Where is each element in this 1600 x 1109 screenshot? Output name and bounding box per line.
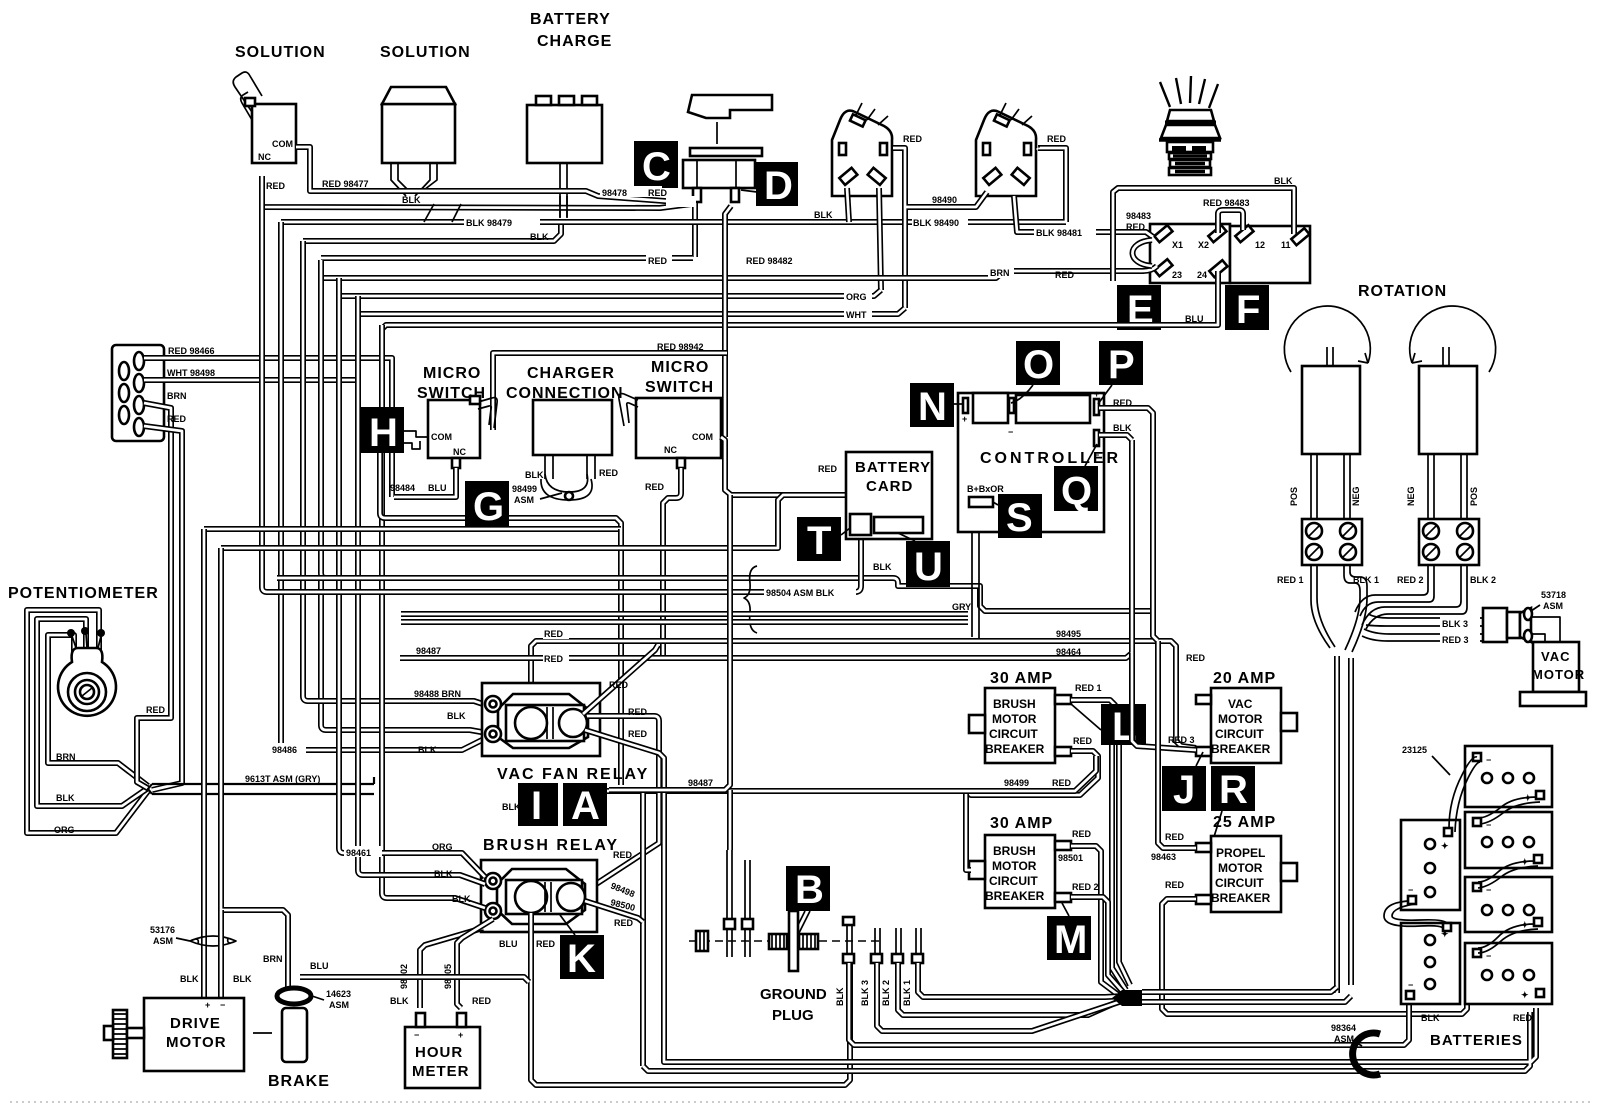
fan junction	[1112, 990, 1142, 1006]
svg-text:RED: RED	[903, 134, 923, 144]
wire 98478 bus S1 NC to key	[262, 176, 691, 208]
wire relay right red	[587, 716, 659, 888]
svg-text:H: H	[369, 411, 398, 455]
wire brush relay to hour meter right	[457, 919, 493, 1008]
svg-text:BLK 2: BLK 2	[881, 980, 891, 1006]
wire D pointer	[741, 190, 757, 192]
svg-text:BLK 3: BLK 3	[860, 980, 870, 1006]
wire micro1 H drop	[380, 453, 621, 529]
label BLK 98490	[912, 215, 968, 228]
svg-text:COM: COM	[692, 432, 713, 442]
svg-text:98464: 98464	[1056, 647, 1081, 657]
wire motor2 leads	[1428, 454, 1467, 519]
svg-text:BLK: BLK	[180, 974, 199, 984]
svg-text:RED: RED	[645, 482, 665, 492]
svg-text:+: +	[205, 1000, 210, 1010]
wire 23125 pointer	[1432, 756, 1450, 775]
label O	[1016, 341, 1060, 387]
svg-text:SOLUTION: SOLUTION	[380, 44, 471, 61]
terminal block EF	[1150, 224, 1310, 283]
svg-text:ROTATION: ROTATION	[1358, 283, 1447, 300]
svg-text:98495: 98495	[1056, 629, 1081, 639]
svg-text:BRN: BRN	[990, 268, 1010, 278]
label BATTERY CARD	[846, 452, 932, 539]
label BLK 98481	[1034, 226, 1096, 238]
svg-text:RED: RED	[544, 654, 564, 664]
wire micro2 NC drop	[663, 468, 681, 659]
svg-text:−: −	[1408, 885, 1413, 895]
svg-text:METER: METER	[412, 1063, 470, 1080]
terminal block 1	[1302, 519, 1362, 565]
svg-text:RED: RED	[613, 850, 633, 860]
wire U pointer	[898, 533, 915, 541]
svg-text:RED: RED	[1513, 1013, 1533, 1023]
svg-text:−: −	[1408, 980, 1413, 990]
svg-text:98487: 98487	[416, 646, 441, 656]
svg-text:+: +	[458, 1030, 463, 1040]
wire micro2 COM elbow	[721, 437, 855, 514]
svg-text:23: 23	[1172, 270, 1182, 280]
wire fan to motor cable	[1142, 987, 1351, 1002]
wire BLK2 drop to bundle	[1362, 565, 1467, 629]
label H	[360, 407, 404, 455]
label ORG	[844, 290, 872, 302]
wire X1 to 23 loop	[1133, 240, 1153, 266]
batteries right column	[1465, 746, 1552, 807]
wire bus 98504 y592	[267, 533, 861, 592]
wire key right to micro2 COM	[725, 206, 731, 437]
svg-text:BLK: BLK	[402, 195, 421, 205]
wire WHT 98498	[144, 377, 356, 383]
wire GRY bus double	[401, 614, 968, 622]
svg-text:RED: RED	[1047, 134, 1067, 144]
svg-text:CHARGE: CHARGE	[537, 33, 612, 50]
wire BLK1 to fan	[918, 963, 1125, 997]
svg-text:T: T	[807, 519, 831, 563]
wire H to micro1	[404, 431, 428, 449]
svg-text:BLK: BLK	[1274, 176, 1293, 186]
label B	[786, 866, 830, 912]
wire RED 98482 key to bus	[321, 255, 693, 261]
wire column x382	[382, 325, 387, 898]
svg-text:O: O	[1023, 343, 1054, 387]
wire pot drop2	[152, 660, 182, 790]
dotted bottom border	[10, 1101, 1590, 1103]
wire GRY 9613T cable	[148, 777, 374, 794]
label F	[1225, 285, 1269, 332]
svg-text:PROPEL: PROPEL	[1216, 846, 1265, 860]
ground pin right1	[843, 917, 854, 963]
svg-text:RED: RED	[628, 729, 648, 739]
wire column x303	[303, 241, 308, 701]
svg-text:98488 BRN: 98488 BRN	[414, 689, 461, 699]
svg-text:✦: ✦	[1521, 990, 1529, 1000]
svg-text:ORG: ORG	[846, 292, 867, 302]
svg-text:30 AMP: 30 AMP	[990, 815, 1053, 832]
wire BLK2 to fan	[898, 963, 1124, 1015]
wire relay diag up	[583, 645, 658, 714]
label RED 98464	[543, 653, 569, 664]
wire 53718 pointer	[1531, 605, 1540, 611]
svg-text:BATTERY: BATTERY	[530, 11, 611, 28]
wire BRN strip to pot	[144, 403, 171, 660]
wire BLK 98486 to vac relay	[286, 738, 486, 750]
svg-text:98484: 98484	[390, 483, 415, 493]
svg-text:ASM: ASM	[1334, 1034, 1354, 1044]
svg-text:98499: 98499	[512, 484, 537, 494]
svg-text:ORG: ORG	[54, 825, 75, 835]
svg-text:RED 1: RED 1	[1277, 575, 1304, 585]
svg-text:BLU: BLU	[310, 961, 329, 971]
svg-text:BLK 3: BLK 3	[1442, 619, 1468, 629]
label 98461	[344, 846, 382, 858]
wire BLU brake bus	[300, 977, 529, 982]
svg-text:HOUR: HOUR	[415, 1044, 463, 1061]
svg-text:CIRCUIT: CIRCUIT	[989, 727, 1038, 741]
svg-text:RED 3: RED 3	[1442, 635, 1469, 645]
battery B4	[1465, 943, 1552, 1004]
brake	[277, 988, 311, 1062]
svg-text:BRN: BRN	[263, 954, 283, 964]
svg-text:RED 2: RED 2	[1072, 882, 1099, 892]
wire brush relay to hour meter left	[420, 928, 483, 1008]
svg-text:98487: 98487	[688, 778, 713, 788]
svg-text:COM: COM	[431, 432, 452, 442]
svg-text:COM: COM	[272, 139, 293, 149]
svg-text:ASM: ASM	[329, 1000, 349, 1010]
charger connection	[533, 400, 612, 500]
svg-text:RED: RED	[614, 918, 634, 928]
label J	[1162, 766, 1206, 812]
svg-text:MOTOR: MOTOR	[992, 859, 1037, 873]
wire K BLU drop	[531, 913, 850, 1085]
wire BLK3 to fan	[877, 963, 1122, 1031]
svg-text:BLK: BLK	[233, 974, 252, 984]
svg-text:RED: RED	[1052, 778, 1072, 788]
svg-text:NC: NC	[453, 447, 466, 457]
svg-text:BLK 98479: BLK 98479	[466, 218, 512, 228]
svg-text:BLK 98490: BLK 98490	[913, 218, 959, 228]
svg-text:BATTERY: BATTERY	[855, 459, 931, 476]
svg-text:BLK: BLK	[525, 470, 544, 480]
wire drive dash	[253, 1032, 272, 1034]
svg-text:53176: 53176	[150, 925, 175, 935]
svg-text:11: 11	[1281, 240, 1291, 250]
ground plug thread	[769, 934, 787, 949]
svg-text:24: 24	[1197, 270, 1207, 280]
svg-text:CIRCUIT: CIRCUIT	[1215, 727, 1264, 741]
wire bus y548 to battery card	[221, 495, 820, 548]
svg-text:RED: RED	[472, 996, 492, 1006]
svg-text:BLK: BLK	[502, 802, 521, 812]
wire motor1 leads	[1311, 454, 1350, 519]
svg-text:WHT: WHT	[846, 310, 867, 320]
label RED 98495 left	[543, 628, 569, 639]
battery B6	[1401, 923, 1460, 1004]
svg-text:RED: RED	[146, 705, 166, 715]
wire BLK 98479 bus	[281, 148, 1066, 222]
svg-text:BLU: BLU	[499, 939, 518, 949]
svg-text:Q: Q	[1061, 469, 1092, 513]
svg-text:ASM: ASM	[153, 936, 173, 946]
svg-text:CONTROLLER: CONTROLLER	[980, 450, 1121, 467]
svg-text:BLK: BLK	[814, 210, 833, 220]
svg-text:−: −	[1486, 755, 1491, 765]
wire RED3 to connector	[1362, 629, 1483, 641]
label G	[465, 481, 509, 529]
wire J pointer	[1196, 752, 1203, 766]
propel motor circuit breaker	[1196, 836, 1297, 912]
wire 24 lug long bus	[382, 271, 1218, 340]
label L	[1101, 704, 1146, 749]
potentiometer loop BLK	[37, 619, 148, 806]
svg-text:RED 1: RED 1	[1075, 683, 1102, 693]
svg-text:J: J	[1173, 768, 1195, 812]
wire RED3 vac breaker	[1132, 653, 1196, 750]
wire R pointer	[1213, 811, 1222, 840]
svg-text:ORG: ORG	[432, 842, 453, 852]
svg-text:BRN: BRN	[167, 391, 187, 401]
wire rocker2 RED elbow	[1037, 148, 1038, 149]
svg-text:D: D	[764, 164, 793, 208]
label BLK 3	[1440, 617, 1480, 629]
terminal strip	[112, 345, 164, 441]
wire column x204 drive motor	[201, 529, 207, 998]
svg-text:BLK: BLK	[530, 232, 549, 242]
svg-text:RED: RED	[648, 188, 668, 198]
vac fan relay	[482, 683, 600, 756]
wire O pointer	[1011, 385, 1033, 403]
solution switch S1	[233, 72, 296, 163]
wire rocker1 left lug	[847, 188, 849, 222]
wire RED1 drop	[1311, 565, 1335, 648]
svg-text:RED 3: RED 3	[1168, 735, 1195, 745]
wire bus 98495	[531, 641, 1196, 748]
svg-text:BLK: BLK	[1113, 423, 1132, 433]
brush motor 2	[1419, 347, 1477, 454]
label 98486	[270, 743, 306, 755]
label RED 98482	[744, 254, 810, 266]
svg-text:BLK: BLK	[56, 793, 75, 803]
svg-text:BATTERIES: BATTERIES	[1430, 1032, 1523, 1049]
label A	[563, 783, 607, 828]
label P	[1099, 341, 1143, 387]
gear shaft	[104, 1010, 144, 1058]
svg-text:98490: 98490	[932, 195, 957, 205]
wire drive motor lead2	[218, 910, 224, 998]
wire RED 98490 rocker1 to rocker2	[893, 148, 987, 308]
label C	[634, 141, 678, 189]
wire controller RED right	[1099, 408, 1158, 641]
label S	[998, 494, 1042, 540]
drive motor	[144, 998, 244, 1071]
battery B3	[1465, 877, 1552, 932]
svg-text:RED: RED	[266, 181, 286, 191]
svg-text:MOTOR: MOTOR	[1218, 861, 1263, 875]
wire S pointer	[993, 502, 998, 505]
label RED key	[646, 254, 672, 266]
svg-text:RED: RED	[648, 256, 668, 266]
svg-text:MOTOR: MOTOR	[1532, 667, 1585, 682]
wire 53176 pointer	[176, 938, 190, 941]
svg-text:C: C	[642, 145, 671, 189]
wire WHT bus	[358, 308, 905, 314]
label 98478 RED	[600, 186, 696, 207]
brush motor circuit breaker 2	[969, 835, 1071, 908]
svg-text:U: U	[914, 545, 943, 589]
wire BLU micro1	[394, 468, 456, 497]
svg-text:NC: NC	[664, 445, 677, 455]
ground plug pin2	[742, 860, 753, 957]
wire column x221 brake	[221, 548, 288, 990]
wire 98487 relay bus	[607, 756, 1096, 791]
svg-text:20 AMP: 20 AMP	[1213, 670, 1276, 687]
svg-text:B+BxOR: B+BxOR	[967, 484, 1004, 494]
svg-text:98463: 98463	[1151, 852, 1176, 862]
svg-text:9613T ASM (GRY): 9613T ASM (GRY)	[245, 774, 320, 784]
svg-text:BREAKER: BREAKER	[985, 742, 1045, 756]
wire bus y578	[277, 578, 1150, 611]
svg-text:98478: 98478	[602, 188, 627, 198]
svg-text:M: M	[1054, 918, 1087, 962]
svg-text:BLK: BLK	[447, 711, 466, 721]
cable brace	[744, 566, 757, 633]
wire column x621	[618, 529, 624, 785]
svg-text:ASM: ASM	[514, 495, 534, 505]
svg-text:MOTOR: MOTOR	[992, 712, 1037, 726]
wire BLK1 drop	[1344, 565, 1367, 652]
svg-text:POS: POS	[1289, 487, 1299, 506]
svg-text:RED: RED	[609, 680, 629, 690]
wire column x339	[339, 278, 344, 853]
wire breaker1 bottom RED	[966, 751, 1098, 795]
ground plug pin1	[724, 850, 735, 957]
svg-text:RED: RED	[1113, 398, 1133, 408]
wire propel left feed	[1158, 641, 1196, 848]
jumper B2 B3	[1478, 861, 1538, 888]
svg-text:R: R	[1219, 768, 1248, 812]
rotation arrow right	[1410, 306, 1496, 372]
wire RED pot jog	[137, 660, 171, 789]
ground plug body	[789, 911, 818, 971]
wire L pointer	[1071, 704, 1101, 730]
hook 98364	[1353, 1033, 1380, 1075]
sensor tab	[969, 497, 993, 507]
wire key left terminal drop	[692, 203, 698, 257]
svg-text:RED: RED	[1126, 222, 1146, 232]
svg-text:−: −	[220, 1000, 225, 1010]
wire N pointer	[954, 403, 963, 405]
svg-text:98501: 98501	[1058, 853, 1083, 863]
svg-text:RED 98466: RED 98466	[168, 346, 215, 356]
svg-text:RED: RED	[536, 939, 556, 949]
wire BLK to vac relay ring2	[326, 730, 487, 733]
label M	[1047, 916, 1091, 962]
svg-text:−: −	[414, 1030, 419, 1040]
label K	[560, 935, 604, 981]
wire motor cable down	[1337, 656, 1351, 993]
wire column x321	[321, 260, 326, 578]
wire RED 98466	[144, 358, 392, 497]
svg-text:98499: 98499	[1004, 778, 1029, 788]
svg-text:BLU: BLU	[1185, 314, 1204, 324]
svg-text:BRN: BRN	[56, 752, 76, 762]
svg-text:NEG: NEG	[1406, 486, 1416, 506]
wire ORG bus	[339, 290, 881, 296]
wire 98364 pointer	[1352, 1040, 1362, 1046]
svg-text:RED: RED	[628, 707, 648, 717]
svg-text:ASM: ASM	[1543, 601, 1563, 611]
brush motor 1	[1302, 347, 1360, 454]
wire column x358	[358, 296, 363, 875]
wire relay red diag 98500	[585, 901, 643, 922]
svg-text:N: N	[918, 385, 947, 429]
wire rocker1 right lug	[879, 188, 881, 290]
svg-text:RED: RED	[1073, 736, 1093, 746]
svg-text:+: +	[962, 414, 967, 424]
svg-text:BLK: BLK	[418, 745, 437, 755]
label R	[1211, 766, 1255, 812]
svg-text:BLK 2: BLK 2	[1470, 575, 1496, 585]
key switch	[683, 95, 772, 202]
rocker switch 1	[832, 103, 892, 196]
wire S drop	[972, 507, 979, 641]
svg-text:RED: RED	[1186, 653, 1206, 663]
wire G pointer	[540, 493, 562, 499]
svg-text:RED 98942: RED 98942	[657, 342, 704, 352]
wire BLK3 to connector	[1366, 614, 1483, 626]
svg-text:53718: 53718	[1541, 590, 1566, 600]
svg-text:BRAKE: BRAKE	[268, 1073, 330, 1090]
battery B2	[1465, 812, 1552, 868]
wire 98487 A drop	[609, 495, 730, 790]
battery charger	[527, 96, 602, 217]
wire 14623 pointer	[312, 996, 324, 1000]
wire column x321 lower	[321, 578, 326, 730]
svg-text:GRY: GRY	[952, 602, 971, 612]
wire breaker2 top RED	[1071, 846, 1121, 997]
label T	[797, 517, 841, 563]
spring 53176	[190, 936, 236, 946]
svg-text:PLUG: PLUG	[772, 1007, 814, 1024]
svg-text:MICRO: MICRO	[423, 365, 481, 382]
svg-text:BLK: BLK	[873, 562, 892, 572]
wire pin1 top link	[727, 790, 733, 850]
wire M pointer	[1062, 903, 1069, 916]
svg-text:SWITCH: SWITCH	[645, 379, 714, 396]
svg-text:BREAKER: BREAKER	[1211, 891, 1271, 905]
svg-text:X2: X2	[1198, 240, 1209, 250]
svg-text:BLK: BLK	[1421, 1013, 1440, 1023]
wire BLK lamp bus to lug 11	[1113, 188, 1294, 281]
svg-text:BRUSH: BRUSH	[993, 697, 1036, 711]
label I	[518, 783, 558, 828]
svg-text:BREAKER: BREAKER	[985, 889, 1045, 903]
wire L drop	[1112, 745, 1130, 990]
svg-text:BREAKER: BREAKER	[1211, 742, 1271, 756]
solution valve S2	[382, 87, 455, 196]
svg-text:MOTOR: MOTOR	[166, 1034, 227, 1051]
svg-text:P: P	[1108, 343, 1135, 387]
wire P pointer	[1098, 385, 1112, 404]
wire BRN bus to lug 23	[321, 266, 1157, 278]
wire RED1 breaker to L	[1071, 700, 1115, 745]
indicator lamp	[1159, 76, 1221, 175]
svg-text:98364: 98364	[1331, 1023, 1356, 1033]
potentiometer loop ORG	[27, 610, 148, 833]
svg-text:S: S	[1006, 496, 1033, 540]
wire bus 98464	[400, 440, 1132, 658]
